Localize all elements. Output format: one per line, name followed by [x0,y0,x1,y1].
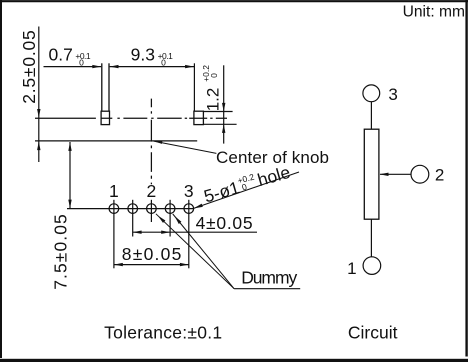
dimension 7.5 line [69,142,71,208]
svg-text:2: 2 [435,165,444,184]
resistor body [364,129,379,219]
Dummy label shelf [234,288,300,290]
dimension 2.5 line [38,27,40,163]
svg-text:1: 1 [109,181,119,201]
1.2 extension line bottom [204,123,237,125]
lever right line [108,63,110,111]
Dummy leader to hole 3 [156,214,234,289]
svg-text:Tolerance:±0.1: Tolerance:±0.1 [104,323,222,343]
lug terminal 2 (right rectangle) [194,111,204,124]
svg-text:1: 1 [347,259,356,278]
svg-text:1.2: 1.2 [204,88,223,112]
wiper arrow [380,173,389,176]
hole 2 tick [132,200,134,237]
svg-text:Unit: mm: Unit: mm [403,4,465,21]
1.2 extension line top [204,111,233,113]
circuit terminal 2 circle [411,165,429,183]
svg-text:3: 3 [184,181,194,201]
dimension 4 line [133,231,257,233]
hole 4 tick [169,200,171,237]
lug terminal 1 (left rectangle) [101,111,109,124]
Dummy leader to hole 4 [173,214,234,289]
hole note leader [194,172,299,208]
hole circle 4 [165,204,175,214]
svg-text:0: 0 [79,58,84,68]
svg-text:0: 0 [209,73,219,78]
dimension 9.3 line [110,66,194,68]
dimension 0.7 line [44,66,102,68]
circuit terminal 1 circle [363,257,381,275]
body line [35,140,197,142]
svg-text:7.5±0.05: 7.5±0.05 [51,214,71,290]
svg-text:9.3: 9.3 [131,44,155,64]
svg-text:4±0.05: 4±0.05 [196,213,253,233]
hole 5 tick [188,200,190,268]
dimension 1.2 line [223,65,225,143]
holes line [67,208,193,210]
svg-text:Dummy: Dummy [241,268,297,288]
svg-text:Center of knob: Center of knob [216,148,329,167]
wiper wire [380,173,411,175]
svg-text:0: 0 [161,58,166,68]
hole 1 tick [113,200,115,268]
extension line for 9.3 dim right end [193,63,195,111]
hole circle 5 [184,204,194,214]
svg-text:3: 3 [388,85,397,104]
hole note 5-ø1 +0.2/0 hole (rotated) [201,162,292,207]
svg-text:8±0.05: 8±0.05 [122,244,182,264]
circuit terminal 3 circle [363,85,380,102]
frame left border [0,0,2,358]
value 1.2 +0.2/0 (rotated) [201,65,223,112]
wire top [370,102,372,130]
center of knob line (vertical dash-dot) [150,99,152,185]
wire bottom [370,219,372,257]
hole 3 tick [150,200,152,222]
center of knob leader [154,141,217,153]
frame bottom border band [0,359,468,362]
dimension 8 line [114,264,189,266]
lever left line [101,63,103,111]
svg-text:2: 2 [147,181,157,201]
frame right border [465,0,467,357]
hole circle 1 [109,204,119,214]
svg-text:Circuit: Circuit [348,323,398,343]
center line (horizontal dash-dot) [35,117,227,119]
frame top border [0,0,468,2]
hole circle 3 [147,204,157,214]
svg-text:2.5±0.05: 2.5±0.05 [19,30,39,104]
svg-text:0.7: 0.7 [49,44,73,64]
hole circle 2 [128,204,138,214]
